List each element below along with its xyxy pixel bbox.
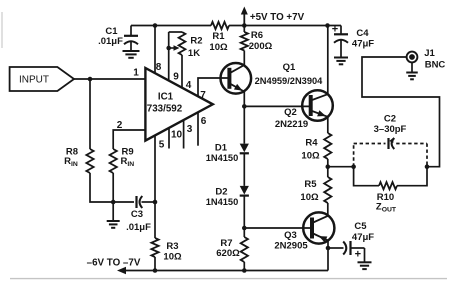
diode D1 1N4150	[240, 144, 249, 153]
ground (C1)	[123, 50, 140, 52]
connector J1 BNC	[407, 52, 418, 63]
wire input to pin1	[74, 78, 145, 80]
wire Q2 emitter to R4	[327, 117, 329, 133]
svg-text:J1: J1	[424, 48, 435, 59]
resistor R9	[110, 149, 117, 173]
svg-text:7: 7	[200, 90, 206, 101]
svg-text:Q3: Q3	[284, 230, 297, 241]
wire R9 bottom	[112, 173, 114, 202]
wire to D1	[243, 106, 245, 143]
capacitor C1	[130, 26, 132, 36]
transistor Q1 2N4959/2N3904	[221, 63, 252, 94]
svg-text:+: +	[332, 24, 338, 36]
node input junction	[88, 77, 93, 82]
svg-text:10Ω: 10Ω	[301, 151, 320, 162]
resistor R6	[243, 26, 245, 33]
wire R7 to rail	[243, 262, 245, 271]
ground (C5)	[364, 248, 366, 262]
svg-text:.01μF: .01μF	[98, 36, 123, 47]
wire Q1 emitter to Q2 base	[244, 105, 310, 107]
wire D2 down	[243, 196, 245, 228]
svg-text:9: 9	[173, 72, 179, 83]
svg-text:10Ω: 10Ω	[209, 42, 228, 53]
svg-text:733/592: 733/592	[147, 104, 183, 115]
svg-text:Q1: Q1	[283, 62, 296, 73]
svg-text:4: 4	[186, 80, 192, 91]
wire	[229, 25, 341, 27]
svg-text:1K: 1K	[188, 48, 200, 59]
wire Q3 to rail	[327, 248, 329, 271]
node R7 top junction	[242, 226, 247, 231]
wire pin6 stub	[197, 112, 199, 146]
svg-text:D1: D1	[215, 143, 228, 154]
svg-text:8: 8	[156, 62, 162, 73]
resistor R2 (trimmer)	[169, 31, 182, 33]
wire pin8	[154, 26, 156, 74]
wire node to C2/R10	[328, 166, 354, 168]
ground (C4)	[334, 57, 348, 59]
wire R10 loop	[354, 167, 379, 186]
wire pin2	[113, 130, 145, 149]
svg-text:+5V TO +7V: +5V TO +7V	[250, 12, 305, 23]
node C3 junction	[153, 200, 158, 205]
svg-text:47μF: 47μF	[352, 38, 374, 49]
node R10 left junction	[351, 164, 356, 169]
svg-text:10Ω: 10Ω	[300, 192, 319, 203]
svg-text:Q2: Q2	[284, 107, 297, 118]
wire Q3 emitter	[327, 240, 329, 248]
svg-text:R1: R1	[212, 31, 225, 42]
svg-text:620Ω: 620Ω	[216, 248, 240, 259]
node INPUT terminal	[10, 67, 74, 91]
wire rail to Q2 collector	[327, 26, 329, 95]
wire Q3 base	[244, 227, 312, 229]
svg-text:10: 10	[171, 130, 183, 141]
svg-text:1N4150: 1N4150	[206, 197, 239, 207]
svg-text:C5: C5	[354, 221, 367, 232]
capacitor C2 3-30pF (dashed)	[353, 144, 355, 167]
svg-text:1: 1	[133, 68, 139, 79]
op-amp U1 IC1 733/592	[145, 68, 212, 141]
svg-text:C2: C2	[384, 113, 396, 124]
capacitor C3	[135, 196, 137, 208]
svg-text:+: +	[355, 249, 361, 261]
ground (J1)	[411, 62, 413, 72]
diode D2 1N4150	[240, 186, 249, 195]
node Q3 emitter junction	[326, 246, 331, 251]
wire	[131, 25, 211, 27]
svg-text:D2: D2	[215, 187, 227, 198]
ground (R8/R9)	[112, 202, 114, 221]
svg-text:R5: R5	[304, 179, 317, 190]
resistor R10	[379, 182, 397, 189]
resistor R7	[243, 228, 245, 237]
resistor R4	[324, 133, 331, 159]
svg-text:2N2905: 2N2905	[274, 241, 308, 252]
node junction R6 top	[242, 23, 247, 28]
wire pin10 stub	[168, 128, 170, 149]
node +V supply arrow	[243, 13, 245, 26]
node junction Q2 collector	[325, 23, 330, 28]
resistor R5	[324, 177, 331, 203]
svg-text:2N2219: 2N2219	[275, 119, 308, 130]
capacitor C4	[340, 26, 342, 35]
svg-text:R3: R3	[166, 241, 178, 252]
svg-text:INPUT: INPUT	[19, 75, 49, 86]
node R10 right junction	[425, 164, 430, 169]
transistor Q2 2N2219	[302, 90, 333, 121]
wire pin7 to Q1	[198, 78, 229, 96]
resistor R1	[211, 22, 229, 29]
svg-text:6: 6	[201, 116, 207, 127]
wire input junction down	[89, 79, 91, 149]
wire -V rail	[124, 270, 328, 272]
wire	[10, 278, 447, 280]
svg-text:R6: R6	[251, 30, 263, 41]
svg-text:5: 5	[159, 140, 165, 151]
svg-text:R2: R2	[190, 36, 202, 47]
svg-text:3: 3	[187, 124, 193, 135]
svg-text:1N4150: 1N4150	[206, 153, 239, 163]
wire node to R5	[327, 167, 329, 177]
svg-text:47μF: 47μF	[352, 232, 374, 243]
wire D1 to D2	[243, 153, 245, 186]
wire R8 bottom	[90, 173, 134, 202]
svg-text:.01μF: .01μF	[126, 222, 151, 233]
svg-text:10Ω: 10Ω	[163, 252, 182, 263]
node Q1 emitter junction	[242, 104, 247, 109]
wire BNC to output network	[362, 57, 440, 167]
resistor R8	[86, 149, 93, 173]
wire pin4	[181, 55, 183, 88]
svg-text:BNC: BNC	[425, 60, 446, 71]
wire pin5 down	[154, 135, 156, 238]
svg-text:C3: C3	[131, 209, 143, 220]
node ground junction	[111, 200, 116, 205]
wire R3 to rail	[154, 257, 156, 271]
wire Q1 emitter	[243, 92, 245, 107]
svg-text:IC1: IC1	[158, 91, 174, 102]
wire R4 to node	[327, 159, 329, 167]
wire R5 to Q3	[327, 203, 329, 216]
svg-text:–6V TO –7V: –6V TO –7V	[87, 258, 141, 269]
transistor Q3 2N2905	[303, 212, 334, 243]
svg-text:200Ω: 200Ω	[249, 41, 273, 52]
wire pin9	[168, 48, 170, 80]
node output junction	[326, 164, 331, 169]
resistor R3	[151, 238, 158, 257]
wire pin3 stub	[183, 120, 185, 149]
wire R6 to Q1	[243, 51, 245, 66]
capacitor C5	[328, 247, 344, 249]
node junction top-left	[153, 23, 158, 28]
svg-text:R4: R4	[305, 138, 318, 149]
svg-text:2N4959/2N3904: 2N4959/2N3904	[255, 76, 324, 86]
svg-text:3–30pF: 3–30pF	[374, 124, 407, 135]
